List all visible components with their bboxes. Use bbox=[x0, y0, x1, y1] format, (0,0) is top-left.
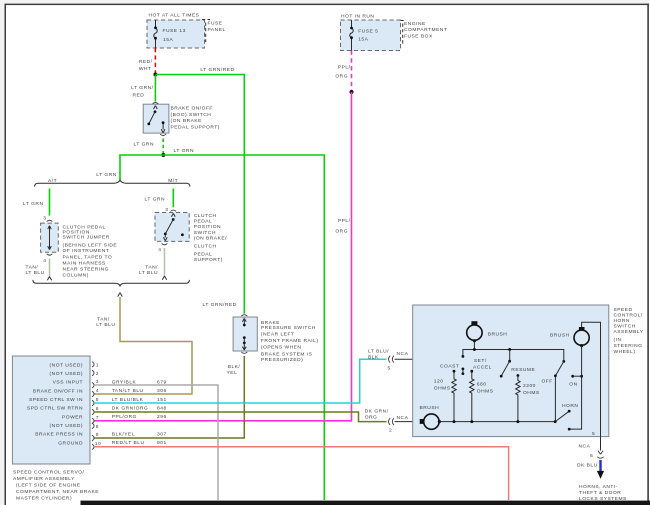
svg-text:BRUSH: BRUSH bbox=[488, 332, 508, 338]
svg-text:BRAKE ON/OFF: BRAKE ON/OFF bbox=[171, 105, 213, 111]
svg-text:BLK: BLK bbox=[368, 354, 379, 360]
svg-text:8: 8 bbox=[96, 424, 99, 430]
svg-text:3: 3 bbox=[165, 207, 168, 213]
svg-text:ORG: ORG bbox=[335, 228, 348, 234]
bottom bus wire bbox=[439, 421, 555, 423]
svg-text:LT GRN/: LT GRN/ bbox=[131, 85, 153, 91]
svg-text:15A: 15A bbox=[358, 37, 368, 43]
svg-text:GRY/BLK: GRY/BLK bbox=[112, 379, 137, 385]
engine compartment fuse box (dashed, top-right) bbox=[341, 20, 401, 51]
wire LT GRN dashed from BOO switch bbox=[162, 139, 164, 154]
connector arc at BOO switch top bbox=[152, 103, 158, 104]
svg-text:PRESSURIZED): PRESSURIZED) bbox=[261, 357, 303, 363]
svg-text:POSITION: POSITION bbox=[194, 224, 221, 230]
switch ON bbox=[569, 375, 583, 387]
fuse panel label bracket bbox=[202, 20, 210, 43]
brake on/off (BOO) switch box bbox=[143, 104, 169, 133]
svg-text:NCA: NCA bbox=[397, 415, 409, 421]
svg-text:TAN/: TAN/ bbox=[26, 265, 39, 271]
svg-text:PEDAL SUPPORT): PEDAL SUPPORT) bbox=[171, 125, 220, 131]
svg-text:296: 296 bbox=[157, 414, 167, 420]
svg-text:VSS INPUT: VSS INPUT bbox=[53, 380, 83, 386]
svg-text:306: 306 bbox=[157, 388, 167, 394]
wire LT GRN/RED short drop to BOO switch bbox=[154, 75, 156, 102]
svg-text:SPEED CONTROL SERVO/: SPEED CONTROL SERVO/ bbox=[13, 469, 85, 475]
svg-text:FUSE BOX: FUSE BOX bbox=[404, 33, 433, 39]
connector arc at brake pressure switch top bbox=[241, 315, 247, 316]
svg-text:BRUSH: BRUSH bbox=[420, 405, 440, 411]
wire LT BLU/BLK 151 pin 5 bbox=[94, 359, 387, 403]
svg-text:YEL: YEL bbox=[227, 370, 238, 376]
brake pressure switch internals bbox=[242, 318, 246, 350]
svg-text:ENGINE: ENGINE bbox=[404, 21, 426, 27]
svg-text:RESUME: RESUME bbox=[511, 367, 535, 373]
svg-text:AMPLIFIER ASSEMBLY: AMPLIFIER ASSEMBLY bbox=[13, 476, 75, 482]
node junction on LT GRN bus bbox=[161, 153, 165, 157]
resistor 2200 ohms bbox=[516, 374, 540, 422]
svg-text:LT BLU: LT BLU bbox=[96, 322, 115, 328]
svg-text:(IN: (IN bbox=[614, 337, 622, 343]
connector NCA 2 (inline) bbox=[365, 409, 420, 434]
svg-text:679: 679 bbox=[157, 379, 167, 385]
svg-text:FRONT FRAME RAIL): FRONT FRAME RAIL) bbox=[261, 338, 319, 344]
node junction below fuse 13 bbox=[153, 73, 157, 77]
svg-text:OFF: OFF bbox=[542, 379, 553, 385]
svg-text:ACCEL: ACCEL bbox=[473, 364, 492, 370]
wire TAN/LT BLU merged run to pin 4 bbox=[118, 293, 123, 297]
svg-text:LT GRN: LT GRN bbox=[23, 201, 43, 207]
svg-text:TAN/: TAN/ bbox=[145, 264, 158, 270]
page frame border bbox=[5, 4, 7, 505]
svg-text:NCA: NCA bbox=[579, 444, 591, 450]
svg-text:TAN/LT BLU: TAN/LT BLU bbox=[112, 388, 144, 394]
svg-text:(NOT USED): (NOT USED) bbox=[50, 371, 83, 377]
speed control servo box bbox=[12, 356, 90, 464]
node 4 (M/T) bbox=[162, 243, 168, 244]
svg-text:NCA: NCA bbox=[397, 351, 409, 357]
svg-text:(ON BRAKE/: (ON BRAKE/ bbox=[194, 236, 227, 242]
page margin strips bbox=[0, 0, 650, 4]
servo pin connector arcs and numbers bbox=[92, 362, 101, 450]
svg-text:COAST: COAST bbox=[440, 363, 459, 369]
svg-text:BRAKE: BRAKE bbox=[261, 320, 280, 326]
svg-text:PEDAL: PEDAL bbox=[194, 218, 213, 224]
wire PPL/ORG dashed from fuse 5 bbox=[351, 51, 353, 92]
under-brace merging A/T and M/T bbox=[33, 280, 190, 287]
fuse panel box (dashed, top-left) bbox=[147, 20, 205, 48]
svg-text:10: 10 bbox=[95, 441, 101, 447]
svg-text:HOT IN RUN: HOT IN RUN bbox=[341, 13, 374, 19]
svg-text:15A: 15A bbox=[163, 37, 173, 43]
svg-text:COMPARTMENT, NEAR BRAKE: COMPARTMENT, NEAR BRAKE bbox=[16, 489, 99, 495]
svg-text:CLUTCH PEDAL: CLUTCH PEDAL bbox=[63, 224, 106, 230]
svg-text:SWITCH: SWITCH bbox=[614, 323, 636, 329]
top bus wire bbox=[463, 350, 564, 362]
wire LT GRN A/T drop bbox=[49, 189, 51, 216]
svg-text:WHEEL): WHEEL) bbox=[614, 349, 636, 355]
svg-text:(LEFT SIDE OF ENGINE: (LEFT SIDE OF ENGINE bbox=[16, 482, 81, 488]
svg-text:GROUND: GROUND bbox=[58, 440, 83, 446]
svg-text:PANEL: PANEL bbox=[208, 27, 226, 33]
svg-text:4: 4 bbox=[96, 388, 99, 394]
svg-text:DK GRN/ORG: DK GRN/ORG bbox=[112, 406, 149, 412]
wire GRY/BLK 679 pin 3 bbox=[94, 385, 218, 500]
svg-text:LT GRN: LT GRN bbox=[145, 196, 165, 202]
svg-text:RED: RED bbox=[133, 93, 145, 99]
svg-text:SET/: SET/ bbox=[474, 358, 487, 364]
svg-text:BLK/YEL: BLK/YEL bbox=[112, 432, 135, 438]
svg-text:POSITION: POSITION bbox=[63, 230, 90, 236]
svg-text:5: 5 bbox=[388, 365, 391, 371]
svg-text:LT BLU: LT BLU bbox=[139, 270, 158, 276]
svg-text:LT GRN/RED: LT GRN/RED bbox=[203, 302, 237, 308]
speed control / horn switch assembly box bbox=[413, 305, 609, 437]
svg-text:HORN: HORN bbox=[562, 403, 578, 409]
svg-text:BLK/: BLK/ bbox=[228, 364, 241, 370]
svg-text:3: 3 bbox=[43, 215, 46, 221]
switch OFF bbox=[542, 360, 566, 422]
svg-text:RED/: RED/ bbox=[139, 59, 153, 65]
svg-text:DK BLU: DK BLU bbox=[577, 463, 598, 469]
svg-text:TAN/: TAN/ bbox=[97, 316, 110, 322]
connector arc at BOO switch bottom bbox=[160, 134, 166, 135]
clutch pedal position switch box (dashed) bbox=[155, 213, 189, 242]
svg-text:LT BLU/: LT BLU/ bbox=[368, 348, 389, 354]
fuse F5 15A bbox=[350, 20, 379, 51]
svg-text:9: 9 bbox=[96, 432, 99, 438]
svg-text:COLUMN): COLUMN) bbox=[63, 273, 89, 279]
svg-text:BRAKE SYSTEM IS: BRAKE SYSTEM IS bbox=[261, 351, 313, 357]
svg-text:2200: 2200 bbox=[523, 383, 536, 389]
svg-text:6: 6 bbox=[96, 406, 99, 412]
svg-text:5: 5 bbox=[96, 397, 99, 403]
clutch pedal position switch internals bbox=[163, 213, 183, 240]
svg-text:120: 120 bbox=[434, 378, 444, 384]
wire TAN/LT BLU A/T drop bbox=[49, 259, 51, 277]
connector NCA 6 (inline, vertical) bbox=[597, 451, 603, 459]
svg-text:1: 1 bbox=[96, 363, 99, 369]
connector NCA 5 (inline) bbox=[368, 317, 474, 371]
svg-text:ASSEMBLY: ASSEMBLY bbox=[614, 329, 644, 335]
wire RED/LT BLU 901 pin 10 bbox=[94, 447, 509, 500]
svg-text:SWITCH: SWITCH bbox=[194, 230, 216, 236]
wire BLK/YEL to pin 9 bbox=[94, 356, 244, 438]
svg-text:SPEED CTRL SW IN: SPEED CTRL SW IN bbox=[29, 397, 83, 403]
svg-text:(BEHIND LEFT SIDE: (BEHIND LEFT SIDE bbox=[63, 243, 118, 249]
svg-text:SPEED: SPEED bbox=[614, 307, 633, 313]
svg-text:ON: ON bbox=[569, 381, 577, 387]
node junction on PPL/ORG bbox=[350, 90, 354, 94]
node 4 (A/T) bbox=[47, 254, 53, 255]
svg-text:LT BLU/BLK: LT BLU/BLK bbox=[112, 397, 144, 403]
svg-text:SPD CTRL SW RTRN: SPD CTRL SW RTRN bbox=[27, 406, 83, 412]
svg-text:PEDAL: PEDAL bbox=[194, 251, 213, 257]
svg-text:OHMS: OHMS bbox=[477, 389, 494, 395]
svg-text:M/T: M/T bbox=[168, 178, 178, 184]
svg-text:307: 307 bbox=[157, 432, 167, 438]
svg-text:LT GRN: LT GRN bbox=[134, 142, 154, 148]
fuse F13 15A bbox=[154, 20, 186, 48]
switch SET/ACCEL contacts bbox=[462, 355, 492, 375]
connector arc at brake pressure switch bottom bbox=[241, 352, 247, 353]
svg-text:STEERING: STEERING bbox=[614, 343, 643, 349]
svg-text:A/T: A/T bbox=[48, 178, 57, 184]
svg-text:PRESSURE SWITCH: PRESSURE SWITCH bbox=[261, 325, 316, 331]
svg-text:CLUTCH: CLUTCH bbox=[194, 244, 217, 250]
svg-text:THEFT & DOOR: THEFT & DOOR bbox=[579, 490, 621, 496]
svg-text:POWER: POWER bbox=[62, 414, 83, 420]
svg-text:PPL/: PPL/ bbox=[338, 218, 351, 224]
brace A/T M/T (over-brace) bbox=[35, 180, 190, 186]
svg-text:FUSE 5: FUSE 5 bbox=[358, 29, 378, 35]
svg-text:ORG: ORG bbox=[335, 74, 348, 80]
svg-text:4: 4 bbox=[158, 247, 161, 253]
svg-text:MAIN HARNESS: MAIN HARNESS bbox=[63, 260, 106, 266]
svg-text:5: 5 bbox=[592, 431, 595, 437]
svg-text:FUSE 13: FUSE 13 bbox=[163, 28, 186, 34]
svg-text:ORG: ORG bbox=[365, 415, 378, 421]
svg-text:151: 151 bbox=[157, 397, 167, 403]
svg-text:BRUSH: BRUSH bbox=[550, 333, 570, 339]
svg-text:2: 2 bbox=[389, 428, 392, 434]
BOO switch internals bbox=[147, 106, 165, 133]
svg-text:(OPENS WHEN: (OPENS WHEN bbox=[261, 345, 302, 351]
svg-text:(ON BRAKE: (ON BRAKE bbox=[171, 118, 203, 124]
svg-text:PPL/: PPL/ bbox=[338, 64, 351, 70]
wire LT GRN bus bbox=[120, 155, 324, 500]
wire TAN/LT BLU M/T drop bbox=[164, 248, 166, 276]
svg-text:OHMS: OHMS bbox=[434, 386, 451, 392]
svg-text:680: 680 bbox=[477, 381, 487, 387]
wire LT GRN/RED horizontal+vertical to brake pressure switch bbox=[155, 75, 244, 314]
svg-text:(NEAR LEFT: (NEAR LEFT bbox=[261, 332, 295, 338]
svg-text:LT GRN: LT GRN bbox=[96, 172, 116, 178]
svg-text:CLUTCH: CLUTCH bbox=[194, 213, 217, 219]
svg-text:MASTER CYLINDER): MASTER CYLINDER) bbox=[16, 495, 72, 501]
engine fuse box label bracket bbox=[401, 21, 407, 45]
svg-text:LT BLU: LT BLU bbox=[26, 270, 45, 276]
svg-text:(BOO) SWITCH: (BOO) SWITCH bbox=[171, 112, 212, 118]
wire RED/WHT (dashed red from fuse 13) bbox=[154, 48, 156, 73]
wire PPL/ORG solid to pin 7 bbox=[94, 92, 352, 421]
bottom black bar bbox=[81, 501, 650, 505]
svg-text:901: 901 bbox=[157, 440, 167, 446]
svg-text:HOT AT ALL TIMES: HOT AT ALL TIMES bbox=[149, 13, 200, 19]
svg-text:6: 6 bbox=[590, 453, 593, 459]
svg-text:BRAKE ON/OFF IN: BRAKE ON/OFF IN bbox=[33, 388, 83, 394]
svg-text:SWITCH JUMPER: SWITCH JUMPER bbox=[63, 235, 110, 241]
resistor 680 ohms bbox=[470, 370, 494, 422]
servo pin labels bbox=[27, 362, 83, 446]
svg-text:WHT: WHT bbox=[139, 66, 152, 72]
wire LT GRN M/T drop bbox=[172, 189, 174, 208]
svg-text:LT GRN/RED: LT GRN/RED bbox=[200, 67, 234, 73]
svg-text:CONTROL/: CONTROL/ bbox=[614, 312, 643, 318]
svg-text:PANEL, TAPED TO: PANEL, TAPED TO bbox=[63, 254, 113, 260]
clutch pedal position switch jumper box (dashed) bbox=[41, 223, 59, 252]
svg-text:RED/LT BLU: RED/LT BLU bbox=[112, 440, 145, 446]
svg-text:7: 7 bbox=[96, 415, 99, 421]
svg-text:BRAKE PRESS IN: BRAKE PRESS IN bbox=[35, 432, 83, 438]
svg-text:PPL/ORG: PPL/ORG bbox=[112, 414, 137, 420]
wire DK BLU with arrow to horns systems bbox=[599, 460, 601, 472]
jumper double-arrow bbox=[48, 226, 52, 250]
svg-text:HORN: HORN bbox=[614, 318, 630, 324]
switch HORN bbox=[555, 403, 578, 430]
svg-text:COMPARTMENT: COMPARTMENT bbox=[404, 27, 447, 33]
svg-text:OHMS: OHMS bbox=[523, 390, 540, 396]
svg-text:NEAR STEERING: NEAR STEERING bbox=[63, 267, 109, 273]
svg-text:2: 2 bbox=[96, 371, 99, 377]
brush B3 (bottom-left) bbox=[420, 405, 442, 430]
brush B1 (top-left) bbox=[467, 321, 508, 349]
wire DK GRN/ORG 848 pin 6 bbox=[94, 412, 387, 422]
svg-text:4: 4 bbox=[43, 258, 46, 264]
svg-text:DK GRN/: DK GRN/ bbox=[365, 409, 389, 415]
switch COAST + resistor 120 ohms bbox=[434, 363, 460, 421]
svg-text:SUPPORT): SUPPORT) bbox=[194, 257, 223, 263]
svg-text:HORNS, ANTI-: HORNS, ANTI- bbox=[579, 484, 618, 490]
svg-text:(NOT USED): (NOT USED) bbox=[50, 362, 83, 368]
svg-text:LT GRN: LT GRN bbox=[174, 148, 194, 154]
svg-text:848: 848 bbox=[157, 406, 167, 412]
svg-text:(NOT USED): (NOT USED) bbox=[50, 423, 83, 429]
svg-text:OF INSTRUMENT: OF INSTRUMENT bbox=[63, 248, 110, 254]
switch RESUME bbox=[500, 350, 536, 378]
brush B2 (top-right) bbox=[550, 322, 601, 436]
brake pressure switch box bbox=[233, 317, 257, 351]
svg-text:FUSE: FUSE bbox=[208, 21, 223, 27]
